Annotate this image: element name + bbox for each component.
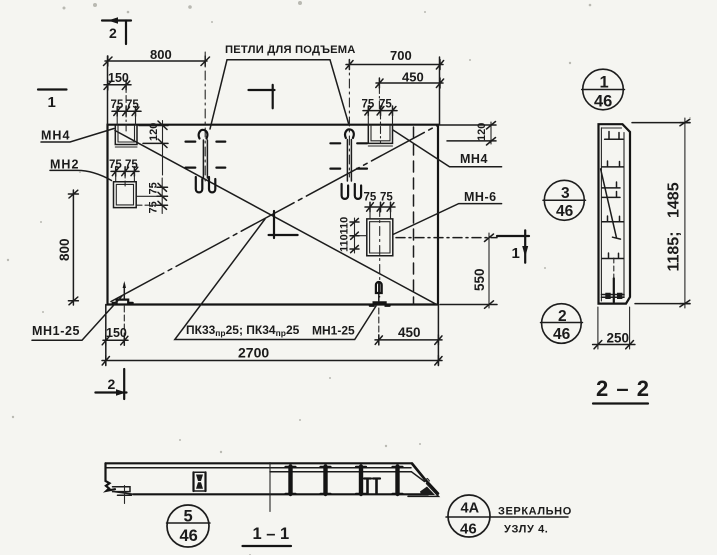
dimension 2700 bottom xyxy=(102,345,442,366)
svg-text:46: 46 xyxy=(460,521,477,538)
plate MN4 top-left xyxy=(115,126,137,148)
svg-text:150: 150 xyxy=(106,326,127,340)
section 2-2 body outline xyxy=(599,124,631,303)
svg-text:75: 75 xyxy=(379,99,392,111)
dimension 450 top-right xyxy=(376,70,444,111)
dimension 550 right xyxy=(396,233,497,308)
svg-text:1185;: 1185; xyxy=(666,231,683,271)
dimension 120 right xyxy=(438,122,496,146)
label MN4 right with leader xyxy=(393,130,502,167)
label MN-6 right with leader xyxy=(393,190,502,235)
svg-text:МН4: МН4 xyxy=(460,152,488,166)
svg-text:700: 700 xyxy=(390,48,412,63)
label MN4 left with leader xyxy=(41,129,114,143)
svg-text:2700: 2700 xyxy=(238,345,269,361)
svg-text:46: 46 xyxy=(594,93,612,111)
svg-text:75: 75 xyxy=(362,99,375,111)
section mark 2 bottom xyxy=(95,369,126,399)
dimension 1185 1485 xyxy=(632,118,690,308)
wire: right edge extension below to 2700 dim xyxy=(437,305,439,366)
circle 2/46 xyxy=(541,304,583,344)
svg-text:800: 800 xyxy=(57,238,72,261)
svg-text:75: 75 xyxy=(148,182,160,194)
svg-text:46: 46 xyxy=(180,527,198,545)
plate MN2 left xyxy=(114,172,163,208)
label 1-1 xyxy=(243,525,292,546)
plate MN4 top-right xyxy=(368,112,392,146)
svg-text:1: 1 xyxy=(48,94,56,111)
wire: diagonal D2 bottom-left to top-right xyxy=(111,125,438,301)
circle 5/46 xyxy=(167,505,211,547)
anchor MN1-25 bottom-left xyxy=(113,281,133,345)
wire: left edge extension up to dims xyxy=(107,56,109,125)
svg-text:2 – 2: 2 – 2 xyxy=(596,376,650,401)
section 1-1 right part ribs xyxy=(270,467,412,495)
dimension 800 top-left xyxy=(104,47,210,66)
circle 1/46 xyxy=(582,69,625,110)
svg-text:МН-6: МН-6 xyxy=(464,190,497,204)
bottom label PK33pr25 PK34pr25 MN1-25 with leaders xyxy=(175,219,376,340)
svg-text:75: 75 xyxy=(380,192,393,204)
svg-text:46: 46 xyxy=(553,326,571,343)
svg-text:2: 2 xyxy=(109,25,117,41)
label MN1-25 bottom-left with leader xyxy=(32,296,122,340)
svg-text:110: 110 xyxy=(339,234,351,252)
svg-text:1: 1 xyxy=(512,245,520,262)
svg-text:ПЕТЛИ ДЛЯ ПОДЪЕМА: ПЕТЛИ ДЛЯ ПОДЪЕМА xyxy=(225,44,356,56)
svg-text:1485: 1485 xyxy=(666,182,683,218)
svg-text:75: 75 xyxy=(148,201,160,213)
label Petli dlya podyema with leader xyxy=(210,44,356,129)
svg-text:УЗЛУ 4.: УЗЛУ 4. xyxy=(504,524,548,536)
svg-text:46: 46 xyxy=(556,203,574,220)
svg-text:5: 5 xyxy=(184,508,193,526)
anchor MN1-25 bottom-right xyxy=(370,282,390,344)
svg-text:550: 550 xyxy=(472,268,487,291)
svg-text:75: 75 xyxy=(111,99,124,111)
svg-text:МН2: МН2 xyxy=(50,158,79,172)
dimension 75 75 above MN-6 xyxy=(364,192,396,219)
svg-text:МН4: МН4 xyxy=(41,129,70,143)
node: top center mark xyxy=(249,85,275,108)
wire: right edge extension up to dims xyxy=(439,57,441,125)
wire: left edge extension below to 2700 dim xyxy=(105,305,107,366)
svg-text:ЗЕРКАЛЬНО: ЗЕРКАЛЬНО xyxy=(498,506,572,518)
label MN2 left with leader xyxy=(50,158,112,181)
node: middle center mark xyxy=(269,211,298,238)
svg-text:2: 2 xyxy=(558,308,567,325)
section mark 1 right xyxy=(497,230,529,262)
svg-text:1 – 1: 1 – 1 xyxy=(253,525,290,543)
svg-text:75: 75 xyxy=(126,99,139,111)
section 1-1 anchor cross left xyxy=(118,486,132,504)
svg-text:250: 250 xyxy=(607,331,630,346)
svg-text:4А: 4А xyxy=(461,501,480,517)
section 1-1 divider xyxy=(269,463,271,512)
svg-text:1: 1 xyxy=(600,74,609,92)
dimension 75 75 top-left plate xyxy=(111,81,142,131)
section 1-1 right end chamfer xyxy=(408,464,439,497)
svg-text:120: 120 xyxy=(148,123,160,141)
svg-text:2: 2 xyxy=(108,376,116,392)
svg-text:МН1-25: МН1-25 xyxy=(32,324,80,338)
section 1-1 loop pocket xyxy=(194,472,206,491)
panel outline xyxy=(108,125,439,305)
dimension 250 xyxy=(593,307,635,349)
dimension 700 top-right xyxy=(346,48,444,70)
dimension 120 left (vertical small) xyxy=(139,121,168,176)
dimension 75 75 above MN2 xyxy=(109,159,139,182)
lifting loop 2 xyxy=(330,60,367,199)
lifting loop 1 xyxy=(186,52,226,192)
svg-text:110: 110 xyxy=(339,217,351,235)
dimension 800 vertical left xyxy=(57,190,78,305)
dimension 75 75 top-right plate xyxy=(362,99,398,126)
section 2-2 rebar rungs xyxy=(601,132,624,259)
circle 4A/46 with note xyxy=(446,495,572,538)
svg-text:450: 450 xyxy=(402,70,424,85)
section mark 2 top xyxy=(102,17,131,44)
section 2-2 bottom anchor xyxy=(602,258,625,302)
wire: dashed vertical line in panel xyxy=(413,127,415,304)
svg-text:75: 75 xyxy=(364,192,377,204)
label 2-2 xyxy=(593,376,650,404)
dimension 150 bottom xyxy=(102,326,128,345)
svg-text:120: 120 xyxy=(476,123,488,141)
dimension 110 110 at MN-6 xyxy=(339,217,360,253)
dimension 150 top-left xyxy=(104,71,131,90)
dimension 450 bottom xyxy=(375,325,442,345)
svg-text:75: 75 xyxy=(125,159,138,171)
plate MN-6 xyxy=(354,208,393,298)
svg-text:75: 75 xyxy=(109,159,122,171)
section mark 1 left xyxy=(38,90,67,112)
dimension 75 75 vertical at MN2 xyxy=(148,178,168,214)
section 1-1 left part outline xyxy=(106,463,429,494)
wire: diagonal D1 top-left to bottom-right xyxy=(115,131,436,305)
svg-text:800: 800 xyxy=(150,47,172,62)
svg-text:3: 3 xyxy=(561,185,570,202)
section 1-1 pins xyxy=(364,479,380,494)
circle 3/46 xyxy=(543,180,586,220)
svg-text:МН1-25: МН1-25 xyxy=(312,324,355,338)
svg-text:450: 450 xyxy=(398,325,421,340)
